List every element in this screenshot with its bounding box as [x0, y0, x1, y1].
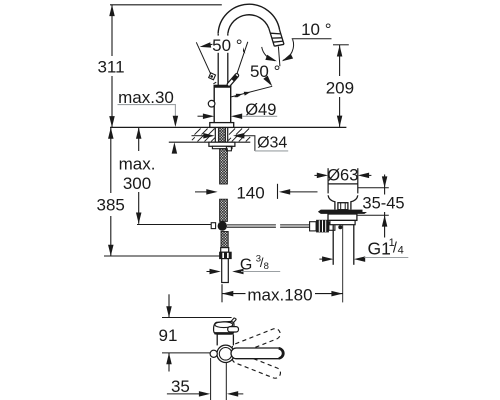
svg-text:Ø63: Ø63 [327, 166, 358, 184]
waste flange bar [318, 210, 367, 214]
svg-text:385: 385 [97, 195, 125, 214]
shank and thread [214, 127, 216, 142]
svg-text:4: 4 [398, 244, 404, 256]
dimension max.300 [138, 127, 140, 223]
extension line at pop-up rod level [137, 224, 211, 226]
waste locknut [328, 214, 357, 220]
waste centerline [342, 225, 344, 302]
G3/8 fitting [221, 248, 229, 253]
dimension 385 [110, 127, 112, 256]
faucet body [214, 85, 231, 125]
pop-up knob [208, 100, 215, 107]
svg-text:50 °: 50 ° [212, 36, 242, 55]
extension line at hose end level [104, 255, 220, 257]
svg-text:140: 140 [236, 184, 264, 203]
10 deg reference line [292, 38, 332, 40]
bottom view: dashed lever down [231, 351, 282, 380]
svg-text:max.30: max.30 [118, 88, 174, 107]
label D34 [192, 135, 207, 137]
dimension 91 [168, 294, 170, 317]
rotated lever glyph [209, 73, 216, 80]
label 50 deg handle [203, 44, 213, 46]
hose lower segment [221, 232, 228, 249]
svg-text:G: G [240, 256, 252, 273]
bottom view: neck [216, 334, 218, 345]
max.30 lower arrow [172, 142, 178, 153]
counter hatching left [192, 129, 250, 142]
label D49 [198, 115, 207, 117]
faucet base [210, 123, 234, 128]
waste body tube [332, 225, 334, 265]
label G1 1/4 [322, 256, 333, 262]
svg-text:35-45: 35-45 [362, 195, 404, 213]
hose upper segment [220, 149, 228, 184]
svg-text:311: 311 [97, 58, 124, 77]
hose middle segment [220, 199, 228, 221]
label D63 [314, 174, 320, 176]
svg-text:10 °: 10 ° [301, 20, 331, 39]
svg-text:300: 300 [123, 174, 151, 193]
svg-text:8: 8 [264, 261, 269, 272]
spout arc inner [228, 15, 269, 33]
bottom view: body circles [217, 345, 234, 362]
rod clamp [310, 222, 317, 231]
spout neck [217, 34, 219, 86]
bottom view: knob [210, 350, 217, 357]
bottom view: spout tip [214, 322, 234, 335]
mounting nut [209, 142, 235, 146]
countertop section [110, 126, 346, 128]
dimension 140 [195, 191, 210, 193]
bottom view: extension line tip top [162, 317, 232, 319]
pop-up waste flange [327, 168, 329, 193]
svg-text:209: 209 [326, 79, 354, 98]
lever handle [226, 73, 239, 87]
spout swivel annotation (50 deg) [278, 46, 280, 66]
svg-text:91: 91 [159, 326, 178, 345]
spout outlet [269, 28, 284, 46]
svg-text:35: 35 [171, 377, 190, 396]
bottom view: solid lever [231, 348, 284, 359]
svg-text:max.180: max.180 [247, 285, 312, 304]
svg-text:Ø34: Ø34 [257, 135, 287, 152]
dimension 311 [111, 5, 113, 128]
waste plug knob [338, 203, 348, 210]
svg-text:max.: max. [119, 155, 156, 174]
svg-text:Ø49: Ø49 [245, 101, 276, 119]
extension line lever axis [162, 352, 210, 354]
label G3/8 [207, 271, 214, 273]
bottom view: dashed lever up [230, 327, 281, 356]
dimension 35 [210, 358, 212, 400]
pop-up rod ball joint [211, 223, 215, 229]
horizontal rod [227, 225, 316, 227]
top extension line [110, 4, 222, 6]
handle swivel lines (50 deg) [196, 42, 213, 78]
swivel axis line [231, 86, 272, 97]
dimension max.180 [221, 284, 223, 302]
spout arc outer [218, 4, 280, 33]
counter hatching right [229, 129, 235, 135]
dimension 209 [333, 44, 349, 46]
svg-text:G1: G1 [368, 239, 391, 259]
dimension 35-45 [358, 187, 389, 189]
